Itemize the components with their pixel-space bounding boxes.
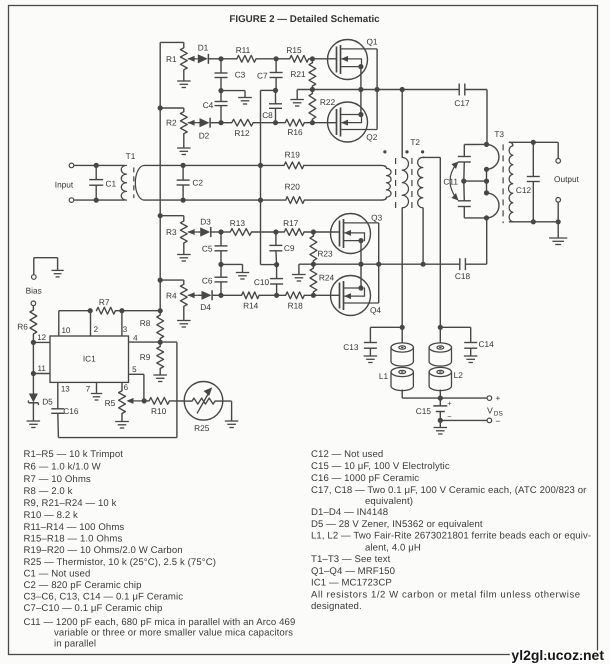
svg-text:C6: C6 — [202, 276, 213, 286]
svg-text:R1–R5 — 10 k Trimpot: R1–R5 — 10 k Trimpot — [24, 449, 124, 460]
svg-text:C3–C6, C13, C14 — 0.1 μF Ceram: C3–C6, C13, C14 — 0.1 μF Ceramic — [24, 591, 184, 602]
svg-text:R18: R18 — [288, 300, 304, 310]
svg-text:Q4: Q4 — [370, 305, 381, 315]
svg-text:C2: C2 — [192, 177, 203, 187]
svg-text:R7 — 10 Ohms: R7 — 10 Ohms — [24, 474, 91, 485]
svg-text:C15: C15 — [416, 406, 432, 416]
svg-text:C17: C17 — [454, 98, 470, 108]
svg-text:R9, R21–R24 — 10 k: R9, R21–R24 — 10 k — [24, 498, 117, 509]
svg-text:Output: Output — [554, 174, 580, 184]
svg-text:V: V — [487, 406, 493, 416]
svg-text:R11–R14 — 100 Ohms: R11–R14 — 100 Ohms — [24, 522, 125, 533]
svg-text:designated.: designated. — [311, 601, 362, 612]
svg-text:T3: T3 — [494, 129, 504, 139]
svg-text:C9: C9 — [284, 243, 295, 253]
svg-text:T1–T3 — See text: T1–T3 — See text — [311, 554, 391, 565]
svg-text:R25 — Thermistor, 10 k (25°C),: R25 — Thermistor, 10 k (25°C), 2.5 k (75… — [24, 557, 217, 568]
svg-text:R15: R15 — [286, 45, 302, 55]
svg-text:C16 — 1000 pF Ceramic: C16 — 1000 pF Ceramic — [311, 473, 419, 484]
svg-text:IC1 — MC1723CP: IC1 — MC1723CP — [311, 578, 392, 589]
svg-text:C3: C3 — [235, 69, 246, 79]
svg-text:Bias: Bias — [26, 285, 42, 295]
svg-text:T2: T2 — [410, 137, 420, 147]
svg-text:C7–C10 — 0.1 μF Ceramic chip: C7–C10 — 0.1 μF Ceramic chip — [24, 603, 163, 614]
svg-text:R21: R21 — [290, 69, 306, 79]
svg-text:R20: R20 — [285, 181, 301, 191]
svg-text:3: 3 — [123, 325, 128, 334]
svg-text:C1: C1 — [105, 178, 116, 188]
svg-text:D1: D1 — [198, 43, 209, 53]
svg-text:C2 — 820 pF Ceramic chip: C2 — 820 pF Ceramic chip — [24, 580, 142, 591]
svg-text:R6: R6 — [17, 321, 28, 331]
svg-text:R10: R10 — [151, 406, 167, 416]
svg-text:D2: D2 — [199, 130, 210, 140]
svg-text:R13: R13 — [230, 218, 246, 228]
svg-text:C5: C5 — [202, 244, 213, 254]
svg-text:7: 7 — [86, 385, 91, 394]
svg-text:R24: R24 — [319, 273, 335, 283]
svg-text:R11: R11 — [236, 45, 251, 55]
svg-text:13: 13 — [61, 385, 70, 394]
svg-text:−: − — [447, 412, 452, 421]
svg-text:R12: R12 — [234, 128, 250, 138]
svg-text:R16: R16 — [287, 127, 303, 137]
svg-text:10: 10 — [61, 326, 70, 335]
svg-text:R5: R5 — [105, 398, 116, 408]
svg-text:equivalent): equivalent) — [365, 496, 413, 507]
svg-text:R3: R3 — [166, 227, 177, 237]
svg-text:−: − — [495, 416, 500, 426]
svg-text:FIGURE 2 — Detailed Schematic: FIGURE 2 — Detailed Schematic — [229, 14, 380, 25]
svg-text:R15–R18 — 1.0 Ohms: R15–R18 — 1.0 Ohms — [24, 533, 123, 544]
svg-text:C12: C12 — [516, 185, 532, 195]
svg-text:alent, 4.0 μH: alent, 4.0 μH — [365, 543, 421, 554]
svg-text:C16: C16 — [63, 406, 79, 416]
svg-text:R25: R25 — [194, 423, 210, 433]
svg-text:R19: R19 — [285, 150, 301, 160]
svg-text:D4: D4 — [200, 302, 211, 312]
svg-text:C11 — 1200 pF each, 680 pF mic: C11 — 1200 pF each, 680 pF mica in paral… — [24, 617, 296, 628]
svg-text:L1, L2 — Two Fair-Rite 2673021: L1, L2 — Two Fair-Rite 2673021801 ferrit… — [311, 531, 591, 542]
svg-text:C10: C10 — [254, 277, 270, 287]
svg-text:12: 12 — [37, 333, 46, 342]
svg-text:C14: C14 — [478, 339, 494, 349]
svg-text:Input: Input — [55, 180, 74, 190]
svg-text:R8 — 2.0 k: R8 — 2.0 k — [24, 486, 73, 497]
svg-text:5: 5 — [132, 365, 137, 374]
svg-text:R4: R4 — [166, 290, 177, 300]
svg-text:R19–R20 — 10 Ohms/2.0 W Carbon: R19–R20 — 10 Ohms/2.0 W Carbon — [24, 545, 183, 556]
svg-text:D5 — 28 V Zener, IN5362 or equ: D5 — 28 V Zener, IN5362 or equivalent — [311, 519, 483, 530]
svg-text:L1: L1 — [379, 371, 389, 381]
svg-text:IC1: IC1 — [83, 353, 96, 363]
svg-text:D1–D4 — IN4148: D1–D4 — IN4148 — [311, 507, 388, 518]
svg-text:variable or three or more smal: variable or three or more smaller value … — [54, 628, 293, 639]
svg-text:R17: R17 — [283, 218, 299, 228]
svg-text:2: 2 — [94, 325, 99, 334]
svg-text:L2: L2 — [454, 370, 464, 380]
svg-text:11: 11 — [38, 364, 47, 373]
svg-text:Q1–Q4 — MRF150: Q1–Q4 — MRF150 — [311, 566, 395, 577]
svg-text:+: + — [447, 399, 452, 408]
svg-text:R2: R2 — [166, 118, 177, 128]
svg-text:R9: R9 — [140, 352, 151, 362]
svg-text:R14: R14 — [243, 300, 259, 310]
svg-text:C1 — Not used: C1 — Not used — [24, 568, 91, 579]
svg-text:R6 — 1.0 k/1.0 W: R6 — 1.0 k/1.0 W — [24, 462, 102, 473]
svg-text:C18: C18 — [455, 271, 471, 281]
svg-text:Q2: Q2 — [366, 132, 377, 142]
svg-text:R8: R8 — [140, 318, 151, 328]
svg-text:All resistors 1/2 W carbon or: All resistors 1/2 W carbon or metal film… — [311, 590, 581, 601]
svg-text:+: + — [495, 393, 500, 403]
svg-text:C8: C8 — [262, 110, 273, 120]
svg-text:6: 6 — [124, 383, 129, 392]
svg-text:R23: R23 — [317, 249, 333, 259]
svg-text:in parallel: in parallel — [54, 639, 96, 650]
svg-text:R10 — 8.2 k: R10 — 8.2 k — [24, 510, 79, 521]
svg-text:D5: D5 — [42, 397, 53, 407]
svg-text:C4: C4 — [203, 100, 214, 110]
svg-text:C13: C13 — [343, 342, 359, 352]
svg-text:C15 — 10 μF, 100 V Electrolyti: C15 — 10 μF, 100 V Electrolytic — [311, 461, 450, 472]
svg-text:C12 — Not used: C12 — Not used — [311, 449, 383, 460]
svg-text:T1: T1 — [126, 151, 136, 161]
svg-text:R22: R22 — [320, 97, 336, 107]
svg-text:4: 4 — [133, 333, 138, 342]
svg-text:Q1: Q1 — [366, 37, 377, 47]
svg-text:C17, C18 — Two 0.1 μF, 100 V C: C17, C18 — Two 0.1 μF, 100 V Ceramic eac… — [311, 485, 587, 496]
svg-text:C7: C7 — [257, 70, 268, 80]
svg-text:R7: R7 — [99, 297, 110, 307]
svg-text:Q3: Q3 — [371, 213, 382, 223]
svg-text:D3: D3 — [200, 217, 211, 227]
svg-text:R1: R1 — [166, 54, 177, 64]
